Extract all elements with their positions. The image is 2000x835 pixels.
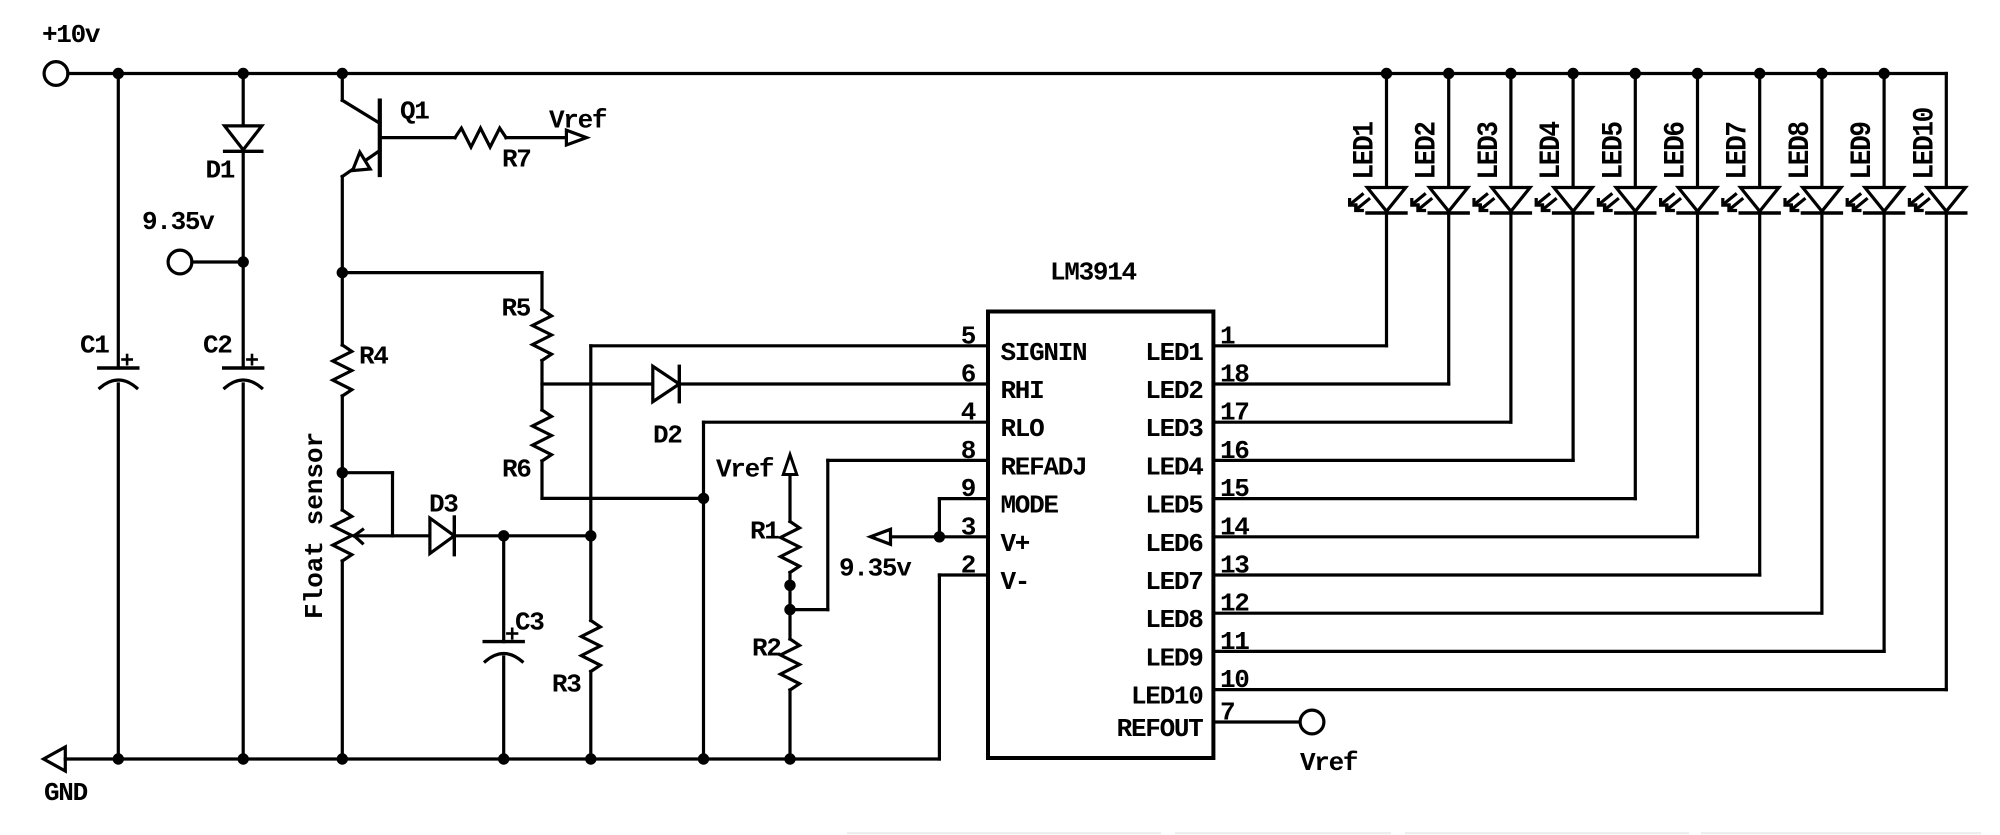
wire LED2 anode column — [1447, 74, 1450, 188]
wire C3 upper — [502, 536, 505, 642]
svg-text:Vref: Vref — [716, 455, 774, 485]
svg-text:R1: R1 — [750, 517, 779, 547]
wire R2 to ground rail — [788, 690, 791, 759]
svg-text:V+: V+ — [1001, 529, 1030, 559]
svg-text:LED8: LED8 — [1145, 605, 1203, 635]
svg-text:LED10: LED10 — [1131, 682, 1203, 712]
wire R4 to float sensor — [341, 396, 344, 510]
svg-text:LED2: LED2 — [1145, 376, 1203, 406]
capacitor C3 — [484, 608, 544, 662]
svg-text:D2: D2 — [653, 421, 682, 451]
svg-text:LED5: LED5 — [1598, 122, 1631, 180]
wire V- pin 2 — [939, 575, 988, 759]
wire R5 to R6 — [540, 361, 543, 411]
resistor R6 — [502, 410, 552, 485]
svg-text:R3: R3 — [552, 670, 581, 700]
junction dot signal net — [585, 530, 596, 541]
resistor R2 — [752, 634, 800, 691]
wire RHI left segment — [542, 382, 653, 385]
wire R1 bottom to R2 top — [788, 573, 791, 640]
wire top +10v supply rail — [68, 72, 1946, 75]
svg-text:R5: R5 — [502, 294, 531, 324]
node +10v power terminal — [42, 20, 101, 85]
wire LED10 anode column — [1945, 74, 1948, 188]
svg-text:C2: C2 — [203, 331, 232, 361]
svg-text:6: 6 — [961, 360, 976, 390]
svg-text:9: 9 — [961, 474, 976, 504]
junction dot C3 tap — [498, 530, 509, 541]
junction dots on top rail — [113, 68, 1890, 79]
svg-text:RLO: RLO — [1001, 414, 1045, 444]
svg-text:V-: V- — [1001, 567, 1030, 597]
wire V+ pin 3 — [939, 535, 988, 538]
svg-text:R4: R4 — [359, 342, 388, 372]
wire Q1 emitter down — [341, 177, 344, 346]
wire LED1 anode column — [1385, 74, 1388, 188]
op-amp U1 LM3914 body — [988, 258, 1213, 759]
LED D_LED9 — [1847, 122, 1904, 213]
wire C3 lower — [502, 657, 505, 759]
svg-text:R6: R6 — [502, 455, 531, 485]
LED D_LED2 — [1411, 122, 1468, 213]
LED D_LED10 — [1909, 107, 1966, 213]
junction dot REFADJ tap — [784, 604, 795, 615]
svg-text:9.35v: 9.35v — [142, 207, 215, 237]
svg-text:LM3914: LM3914 — [1050, 258, 1137, 288]
svg-text:LED9: LED9 — [1847, 122, 1880, 180]
svg-text:LED3: LED3 — [1473, 122, 1506, 180]
svg-text:LED5: LED5 — [1145, 491, 1203, 521]
resistor R5 — [502, 294, 552, 361]
svg-text:4: 4 — [961, 398, 976, 428]
svg-text:LED4: LED4 — [1145, 452, 1203, 482]
svg-text:REFADJ: REFADJ — [1001, 452, 1087, 482]
wire R6 bottom to RLO net — [542, 461, 704, 498]
resistor R3 — [552, 621, 600, 700]
svg-text:Float sensor: Float sensor — [300, 432, 330, 619]
ground — [44, 747, 88, 808]
diode D3 — [429, 490, 458, 555]
svg-text:D1: D1 — [206, 156, 235, 186]
wire D3 cathode to signal net — [454, 534, 591, 537]
node Vref output arrow — [549, 106, 607, 146]
svg-text:R7: R7 — [502, 145, 531, 175]
junction dots on ground rail — [113, 753, 796, 764]
wire RLO pin 4 — [704, 422, 989, 759]
LED D_LED7 — [1722, 122, 1779, 213]
junction dot V+ tap — [934, 531, 945, 542]
svg-text:LED8: LED8 — [1784, 122, 1817, 180]
wire LED8 cathode to pin — [1213, 213, 1822, 613]
node 9.35v terminal — [142, 207, 215, 274]
wire SIGNIN net — [591, 346, 988, 621]
wire C1 branch upper — [117, 74, 120, 369]
wire LED8 anode column — [1820, 74, 1823, 188]
resistor R7 — [455, 128, 531, 174]
svg-text:LED6: LED6 — [1660, 122, 1693, 180]
svg-text:LED6: LED6 — [1145, 529, 1203, 559]
svg-text:9.35v: 9.35v — [839, 554, 912, 584]
svg-text:Q1: Q1 — [400, 97, 429, 127]
wire LED3 cathode to pin — [1213, 213, 1511, 422]
LED D_LED1 — [1349, 122, 1406, 213]
potentiometer Float sensor — [300, 432, 352, 619]
wire D1 cathode to C2 — [242, 151, 245, 368]
junction dot 9.35v tap — [238, 256, 249, 267]
wire LED1 cathode to pin — [1213, 213, 1386, 346]
svg-text:LED9: LED9 — [1145, 643, 1203, 673]
svg-text:GND: GND — [44, 778, 88, 808]
wire D2 cathode to pin 6 — [679, 382, 988, 385]
wire LED3 anode column — [1509, 74, 1512, 188]
wire wiper to D3 anode — [393, 534, 430, 537]
svg-text:R2: R2 — [752, 634, 781, 664]
wire Q1 base lead — [380, 136, 455, 139]
svg-text:REFOUT: REFOUT — [1117, 714, 1204, 744]
wire ground rail — [65, 757, 939, 760]
wire LED4 cathode to pin — [1213, 213, 1573, 460]
svg-text:C3: C3 — [515, 608, 544, 638]
svg-text:D3: D3 — [429, 490, 458, 520]
junction dot R1 bottom — [784, 580, 795, 591]
wire R7 to Vref arrow — [506, 136, 570, 139]
wire C2 lower — [242, 384, 245, 759]
svg-text:LED7: LED7 — [1145, 567, 1202, 597]
svg-text:LED7: LED7 — [1722, 122, 1755, 179]
pin labels left side LM3914 — [961, 321, 1087, 597]
svg-text:2: 2 — [961, 551, 976, 581]
wire LED9 cathode to pin — [1213, 213, 1884, 651]
wire LED10 cathode to pin — [1213, 213, 1946, 690]
svg-text:LED4: LED4 — [1536, 122, 1569, 180]
svg-text:LED1: LED1 — [1349, 122, 1382, 180]
node 9.35v arrow — [839, 529, 939, 583]
wire R5 top tap — [342, 273, 542, 310]
LED D_LED6 — [1660, 122, 1717, 213]
wire REFOUT pin 7 — [1213, 720, 1300, 723]
wire MODE pin 9 — [939, 499, 988, 537]
svg-text:RHI: RHI — [1001, 376, 1044, 406]
wire LED7 cathode to pin — [1213, 213, 1759, 575]
svg-text:C1: C1 — [80, 331, 109, 361]
wire wiper connection — [342, 473, 392, 544]
node Vref reference arrow — [716, 455, 797, 522]
pin labels right side LM3914 — [1117, 321, 1250, 744]
LED D_LED5 — [1598, 122, 1655, 213]
svg-text:LED3: LED3 — [1145, 414, 1203, 444]
diode D2 — [653, 366, 683, 450]
svg-text:3: 3 — [961, 512, 976, 542]
svg-text:Vref: Vref — [549, 106, 607, 136]
wire REFADJ pin 8 — [790, 460, 988, 609]
svg-text:Vref: Vref — [1300, 748, 1358, 778]
LED D_LED3 — [1473, 122, 1530, 213]
wire LED4 anode column — [1571, 74, 1574, 188]
capacitor C2 — [203, 331, 263, 389]
LED D_LED8 — [1784, 122, 1841, 213]
svg-text:LED10: LED10 — [1909, 107, 1942, 179]
LED D_LED4 — [1536, 122, 1593, 213]
wire 9.35v terminal to D1 cathode — [192, 260, 243, 263]
junction dot R5 tap — [337, 267, 348, 278]
resistor R4 — [333, 342, 389, 397]
wire LED9 anode column — [1882, 74, 1885, 188]
junction dot wiper tap — [337, 467, 348, 478]
wire faint scan line bottom — [848, 832, 1980, 834]
svg-text:MODE: MODE — [1001, 491, 1059, 521]
wire LED6 cathode to pin — [1213, 213, 1697, 537]
wire float sensor to ground rail — [341, 561, 344, 759]
wire LED6 anode column — [1696, 74, 1699, 188]
wire D1 anode — [242, 74, 245, 127]
capacitor C1 — [80, 331, 138, 389]
svg-text:8: 8 — [961, 436, 976, 466]
wire LED2 cathode to pin — [1213, 213, 1448, 384]
wire LED7 anode column — [1758, 74, 1761, 188]
svg-text:LED2: LED2 — [1411, 122, 1444, 180]
svg-text:LED1: LED1 — [1145, 338, 1203, 368]
svg-text:+10v: +10v — [42, 20, 101, 50]
node Vref output terminal — [1300, 710, 1358, 778]
wire LED5 cathode to pin — [1213, 213, 1635, 499]
diode D1 — [206, 126, 262, 186]
resistor R1 — [750, 517, 800, 573]
wire LED5 anode column — [1634, 74, 1637, 188]
junction dot RLO net — [698, 493, 709, 504]
svg-text:5: 5 — [961, 321, 976, 351]
wire C1 branch lower — [117, 384, 120, 759]
wire R3 to ground rail — [589, 672, 592, 760]
svg-text:SIGNIN: SIGNIN — [1001, 338, 1087, 368]
transistor Q1 — [342, 74, 429, 177]
